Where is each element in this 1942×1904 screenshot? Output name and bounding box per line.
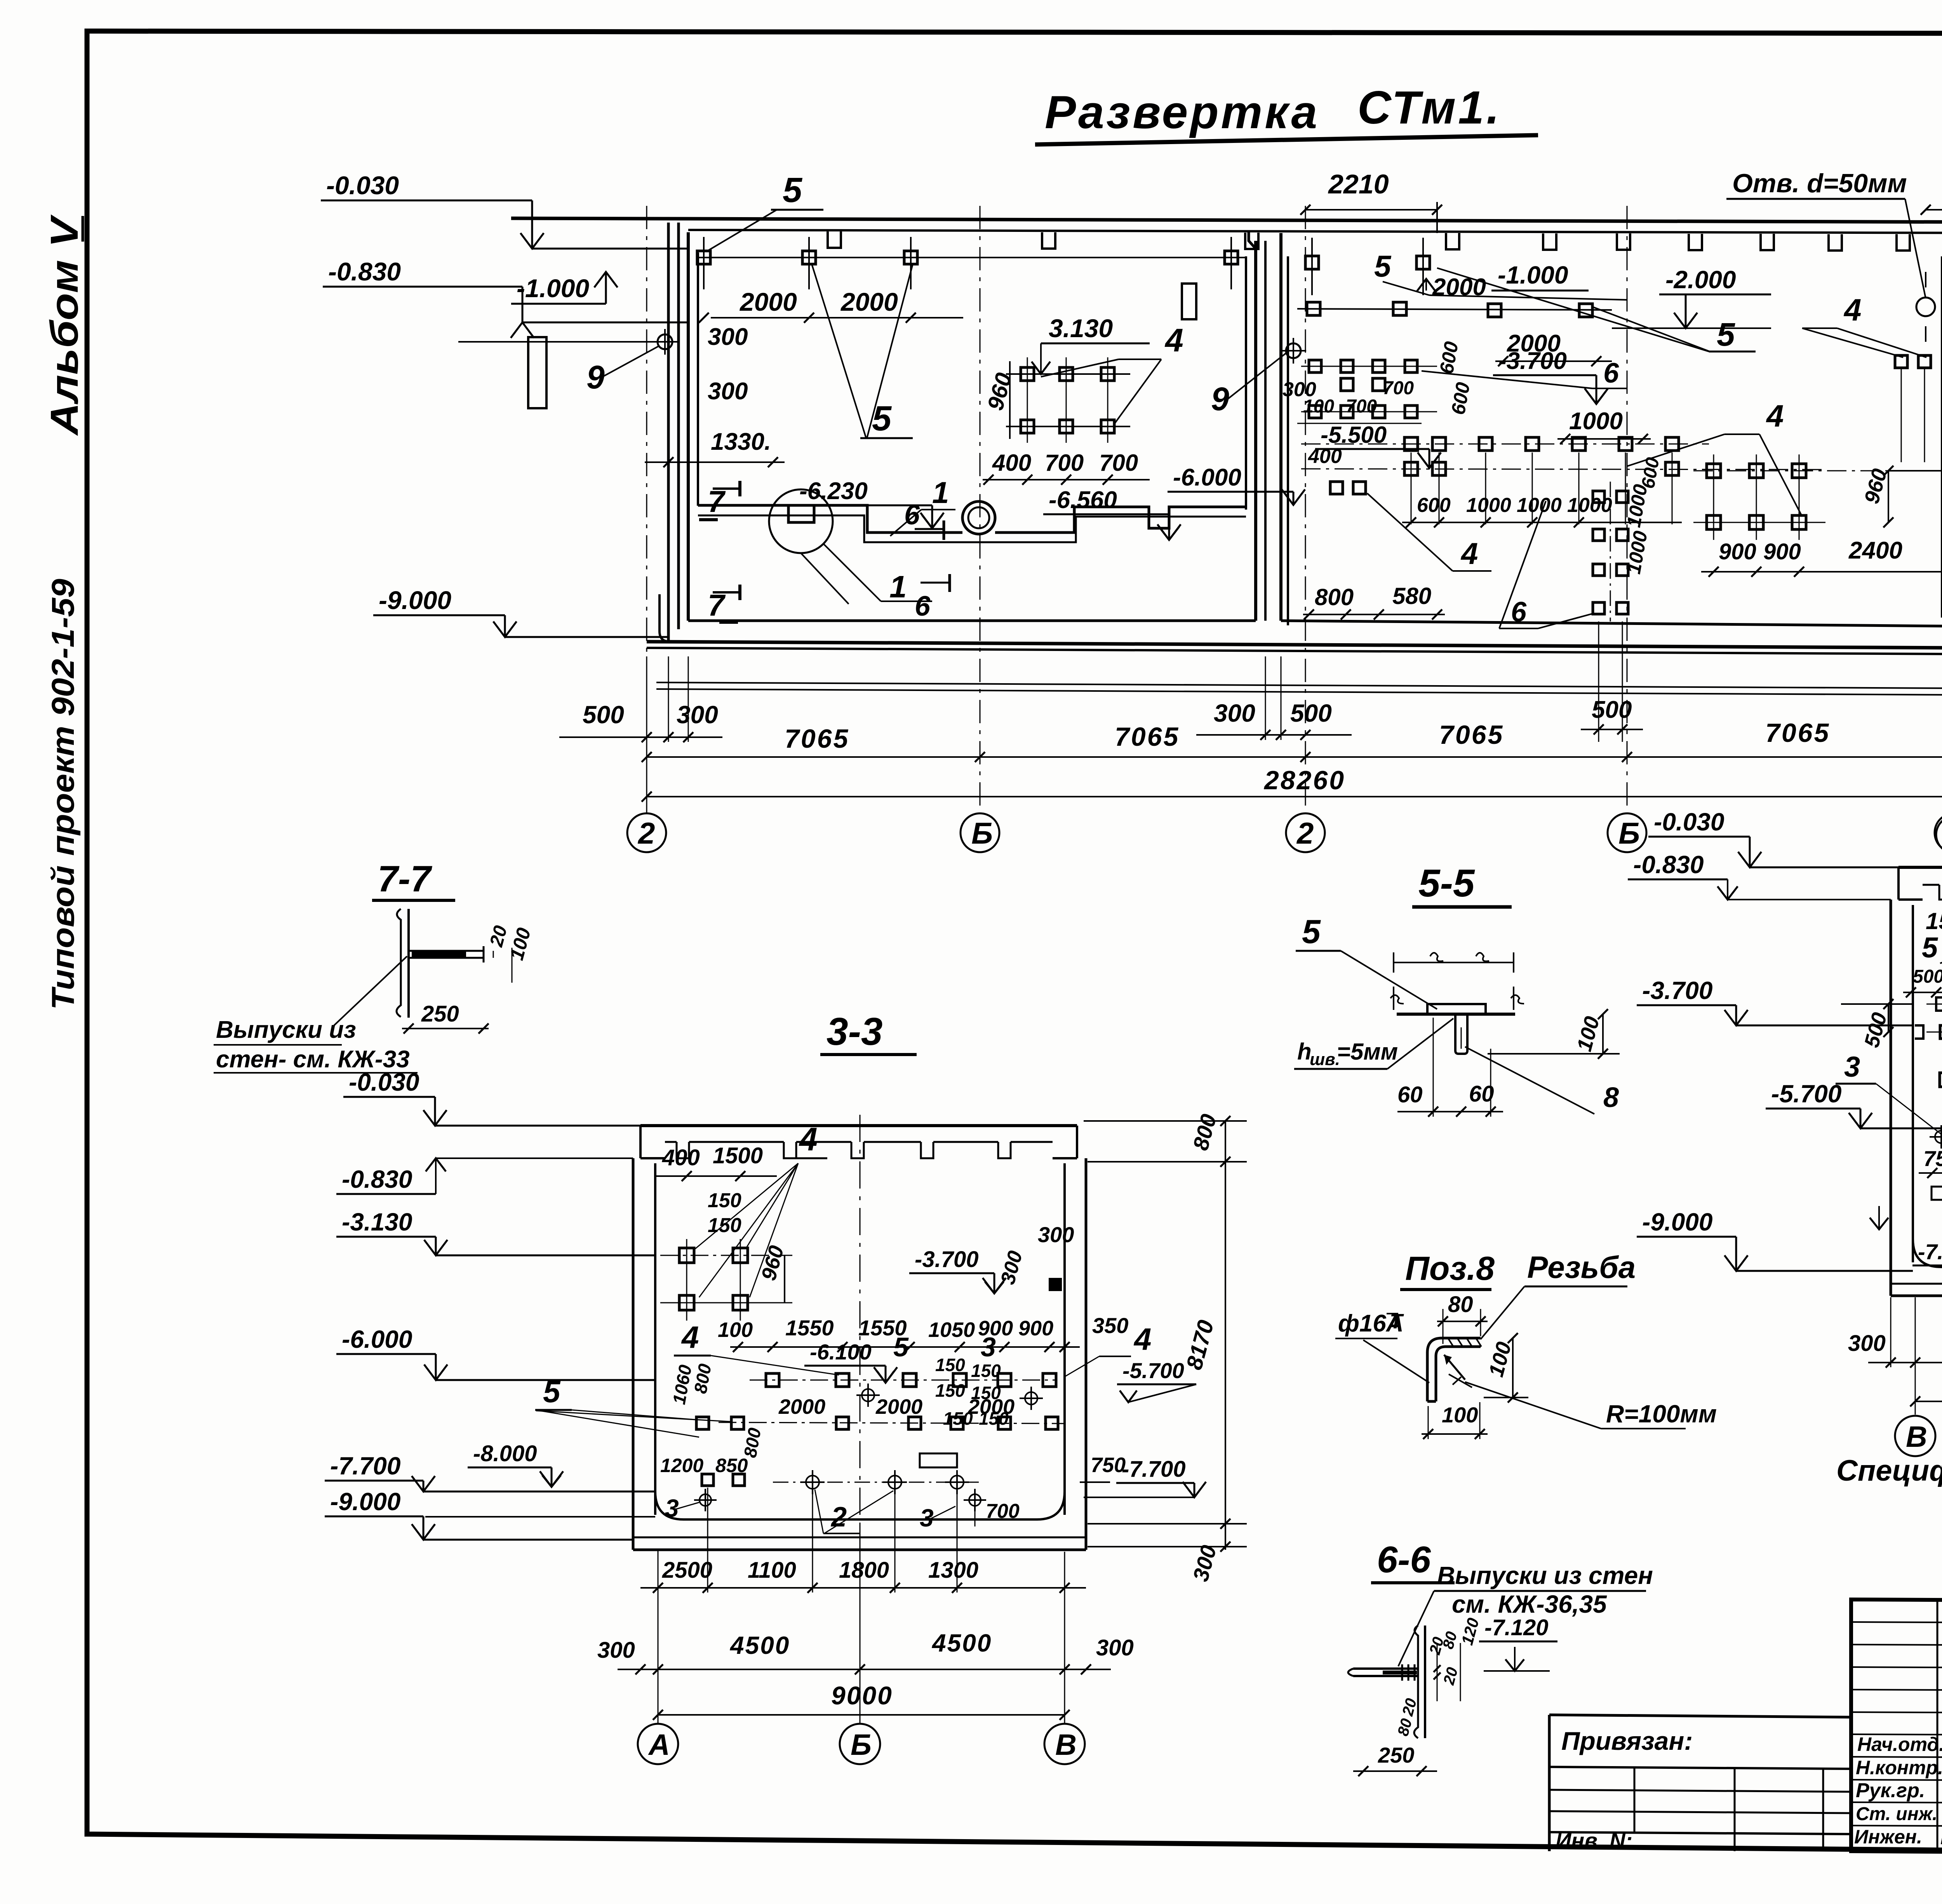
- svg-text:7-7: 7-7: [378, 858, 432, 900]
- section 4-4 axis bubble 2 top: [1936, 656, 1942, 853]
- svg-text:350: 350: [1092, 1313, 1128, 1338]
- section 3-3 right vertical dim 800/8170/300: [1084, 1112, 1247, 1584]
- label 4 far right pair: [1802, 292, 1926, 357]
- section 3-3 title: [820, 1010, 917, 1055]
- svg-text:28260: 28260: [1263, 766, 1345, 795]
- svg-text:-6.100: -6.100: [810, 1340, 872, 1364]
- left cluster small dims: [1282, 340, 1474, 468]
- svg-text:100: 100: [1442, 1403, 1478, 1427]
- svg-text:4: 4: [1843, 292, 1862, 327]
- svg-text:900: 900: [1763, 539, 1801, 564]
- svg-text:1800: 1800: [839, 1558, 889, 1583]
- svg-text:2000: 2000: [739, 287, 797, 316]
- svg-text:Спецификация элементов приве: Спецификация элементов приведена на л. К…: [1836, 1454, 1942, 1487]
- svg-text:Мирошникова: Мирошникова: [1940, 1828, 1942, 1848]
- section 4-4 dim 9000: [1910, 1368, 1942, 1406]
- svg-text:5: 5: [1922, 931, 1939, 964]
- svg-text:-7.120: -7.120: [1484, 1615, 1548, 1640]
- svg-text:5: 5: [1302, 913, 1321, 950]
- level -9.000 left: [373, 586, 668, 637]
- section 4-4 left levels: [1628, 808, 1942, 1271]
- main development view: top edge notches: [828, 231, 1910, 251]
- title block left sub-table: [1851, 1600, 1942, 1853]
- svg-text:750: 750: [1091, 1453, 1126, 1477]
- svg-text:Резьба: Резьба: [1527, 1250, 1636, 1284]
- svg-text:-3.700: -3.700: [1498, 348, 1567, 374]
- detail circle callout 1: [769, 489, 932, 604]
- svg-text:9: 9: [586, 359, 605, 395]
- svg-text:3.130: 3.130: [1049, 314, 1113, 343]
- svg-text:2000: 2000: [968, 1395, 1015, 1418]
- svg-text:1000: 1000: [1569, 408, 1623, 435]
- dims 300 500 below mid wall: [1196, 656, 1352, 740]
- svg-text:6: 6: [1603, 358, 1619, 389]
- svg-text:-0.030: -0.030: [326, 171, 399, 200]
- svg-text:СТм1.: СТм1.: [1357, 82, 1502, 134]
- svg-text:см. КЖ-36,35: см. КЖ-36,35: [1452, 1590, 1607, 1618]
- outlet squares, left panel top row: [697, 237, 1238, 289]
- outlet circle with label 9, left panel: [458, 329, 678, 395]
- svg-text:1000: 1000: [1567, 494, 1612, 517]
- svg-text:400: 400: [662, 1145, 700, 1170]
- svg-text:300: 300: [1096, 1635, 1134, 1660]
- outlet squares, right panel right 3x2 grid: [1693, 454, 1911, 540]
- svg-text:700: 700: [1383, 378, 1414, 399]
- outlet circle with label 9, right panel: [1211, 338, 1306, 417]
- svg-text:300: 300: [1848, 1331, 1886, 1356]
- label 4 leader lower: [1367, 493, 1491, 571]
- svg-text:-5.700: -5.700: [1771, 1080, 1841, 1108]
- svg-text:-9.000: -9.000: [1642, 1208, 1712, 1236]
- svg-text:6-6: 6-6: [1377, 1539, 1431, 1580]
- section 3-3 roof notches: [665, 1142, 1053, 1158]
- svg-text:6: 6: [904, 499, 920, 531]
- section 3-3 small rect detail: [920, 1453, 957, 1467]
- section 3-3 dims 1200 850: [660, 1455, 748, 1476]
- main development view: axis lines: [647, 206, 1942, 813]
- outlet squares, right panel upper: [1297, 238, 1612, 317]
- svg-text:300: 300: [1038, 1222, 1074, 1247]
- svg-text:2: 2: [1296, 816, 1314, 850]
- dims 300/300/1330 left: [645, 324, 785, 467]
- margin label: project number: [45, 579, 81, 1010]
- svg-text:7065: 7065: [785, 724, 849, 754]
- section 4-4 dim 500 rot left: [1841, 999, 1913, 1050]
- main title: [1035, 82, 1538, 144]
- svg-text:Привязан:: Привязан:: [1561, 1726, 1693, 1755]
- section 3-3 level -6.000: [336, 1325, 655, 1380]
- dims 600 1000 1000 1000 under long row: [1402, 494, 1682, 527]
- section 3-3 level -3.130: [336, 1208, 655, 1255]
- svg-text:-0.030: -0.030: [1654, 808, 1724, 836]
- detail poz8 angle bar: [1427, 1338, 1481, 1401]
- svg-text:Б: Б: [851, 1728, 872, 1761]
- svg-text:-3.130: -3.130: [342, 1208, 412, 1236]
- section 5-5 dim 100 + label 8: [1465, 1009, 1620, 1114]
- outlet squares, left panel grid: [1006, 357, 1130, 443]
- svg-text:700: 700: [1099, 450, 1138, 476]
- svg-text:Ст. инж.: Ст. инж.: [1856, 1804, 1937, 1824]
- level -6.000 right of left panel: [1168, 464, 1305, 505]
- section 3-3 level -9.000: [325, 1488, 655, 1540]
- svg-text:100: 100: [718, 1318, 753, 1342]
- svg-text:-0.830: -0.830: [328, 257, 401, 286]
- svg-text:-9.000: -9.000: [330, 1488, 400, 1516]
- svg-text:500: 500: [1592, 696, 1632, 723]
- svg-text:4: 4: [1133, 1322, 1152, 1356]
- svg-text:400: 400: [1308, 445, 1342, 468]
- detail poz8 radius note: [1444, 1355, 1717, 1429]
- svg-text:300: 300: [708, 324, 748, 350]
- section 5-5 title: [1412, 861, 1512, 907]
- section 4-4 squares row 2: [1915, 1025, 1942, 1039]
- svg-text:-6.230: -6.230: [799, 478, 868, 505]
- svg-text:R=100мм: R=100мм: [1606, 1400, 1717, 1428]
- svg-text:3-3: 3-3: [827, 1010, 883, 1053]
- section 3-3 label 5 left with leaders: [535, 1374, 730, 1437]
- svg-text:2500: 2500: [662, 1558, 712, 1583]
- detail poz8 dims: [1335, 1292, 1528, 1439]
- level -6.230: [794, 478, 944, 528]
- section 5-5 label 5: [1296, 913, 1437, 1009]
- svg-text:300: 300: [597, 1638, 635, 1663]
- level -1.000 right panel: [1417, 261, 1589, 291]
- svg-text:Нач.отд.: Нач.отд.: [1857, 1733, 1942, 1755]
- outlet squares, right panel scattered pairs: [1330, 355, 1931, 494]
- label 1 lower left panel: [801, 553, 849, 604]
- svg-text:300: 300: [1214, 699, 1255, 727]
- svg-text:4500: 4500: [931, 1629, 992, 1657]
- label 5 right panel with double leader: [1374, 249, 1756, 353]
- svg-text:-3.700: -3.700: [915, 1247, 978, 1272]
- section 4-4 small rect: [1919, 1187, 1942, 1206]
- svg-text:1: 1: [889, 569, 907, 604]
- svg-text:9000: 9000: [831, 1681, 893, 1710]
- svg-text:2000: 2000: [840, 287, 898, 316]
- svg-text:1000: 1000: [1517, 494, 1562, 517]
- svg-text:2000: 2000: [875, 1395, 922, 1418]
- section 3-3 top right corner dims 300 300 -3.700: [909, 1222, 1074, 1293]
- svg-text:-7.700: -7.700: [1918, 1239, 1942, 1264]
- section 4-4 dim row 750 700 1300 900 900 1100 2500: [1919, 1138, 1942, 1178]
- svg-text:80: 80: [1448, 1292, 1473, 1317]
- svg-text:Типовой проект 902-1-59: Типовой проект 902-1-59: [45, 579, 81, 1010]
- section marks 7-7 left panel: [699, 481, 740, 622]
- svg-text:250: 250: [1378, 1743, 1414, 1767]
- detail poz8 title: [1400, 1250, 1495, 1290]
- svg-text:-5.500: -5.500: [1321, 422, 1387, 448]
- dimension row 28260: [642, 766, 1942, 802]
- svg-text:150: 150: [708, 1189, 741, 1212]
- svg-text:А: А: [648, 1728, 670, 1761]
- section 4-4 label 3 + circle: [1836, 1051, 1942, 1149]
- svg-text:2000: 2000: [1432, 274, 1486, 301]
- section 3-3 upper squares 2x2: [660, 1239, 792, 1321]
- section 4-4 squares row 1: [1926, 997, 1942, 1011]
- dim 960 rot right grid: [1860, 466, 1893, 527]
- svg-text:5: 5: [893, 1332, 909, 1362]
- outlet squares, right panel center column pairs: [1593, 482, 1628, 621]
- svg-text:4: 4: [681, 1320, 699, 1354]
- svg-text:-6.000: -6.000: [1173, 464, 1241, 491]
- svg-text:7065: 7065: [1439, 720, 1504, 750]
- dims 400 700 700 left panel: [983, 450, 1150, 485]
- section 3-3 rotated dims 1060 800 800: [669, 1362, 765, 1459]
- svg-text:В: В: [1906, 1420, 1927, 1453]
- svg-text:60: 60: [1397, 1082, 1423, 1107]
- svg-text:7065: 7065: [1115, 722, 1180, 752]
- svg-text:1100: 1100: [748, 1558, 796, 1583]
- svg-text:4: 4: [1460, 536, 1478, 571]
- svg-text:Инв. N:: Инв. N:: [1556, 1828, 1632, 1853]
- section 7-7 outlet bar: [409, 946, 484, 962]
- svg-text:580: 580: [1392, 583, 1431, 609]
- section 3-3 axis line verticals inside: [860, 1115, 861, 1523]
- svg-text:500: 500: [583, 701, 624, 729]
- svg-text:В: В: [1055, 1728, 1077, 1761]
- main development view: top slab lines: [511, 218, 1942, 233]
- svg-text:9: 9: [1211, 381, 1229, 417]
- svg-text:Отв. d=50мм: Отв. d=50мм: [1732, 169, 1907, 198]
- svg-text:1500: 1500: [1926, 908, 1942, 934]
- svg-text:5: 5: [543, 1374, 561, 1409]
- svg-text:5: 5: [1374, 249, 1392, 283]
- specification note: [1836, 1454, 1942, 1487]
- level -0.030 left: [321, 171, 688, 249]
- label 6 right panel: [1422, 358, 1627, 389]
- level -1.000 left: [511, 272, 618, 304]
- main development view: left panel floor with channel: [698, 505, 1246, 542]
- svg-text:Н.контр.: Н.контр.: [1856, 1757, 1942, 1779]
- svg-text:2000: 2000: [778, 1395, 825, 1418]
- axis bubbles row: [627, 813, 1942, 852]
- svg-text:1050: 1050: [928, 1318, 975, 1342]
- section 3-3 mid dim row 100 1550 1550 1050 900 900 350: [718, 1313, 1128, 1352]
- svg-text:500: 500: [1290, 699, 1332, 727]
- svg-text:600: 600: [1417, 494, 1451, 517]
- svg-text:1: 1: [932, 475, 949, 510]
- section 4-4 roof slab: [1898, 867, 1942, 900]
- svg-text:=5мм: =5мм: [1337, 1039, 1398, 1065]
- svg-text:5: 5: [1717, 316, 1735, 353]
- main development view: left end wall: [660, 223, 687, 642]
- section 4-4 dim row 500 1000x6: [1903, 966, 1942, 997]
- svg-text:-7.700: -7.700: [1122, 1457, 1185, 1482]
- hole note Otv d=50mm: [1726, 169, 1935, 342]
- svg-text:7065: 7065: [1765, 718, 1830, 748]
- section 3-3 dims 400 1500 + label 4: [656, 1121, 827, 1297]
- section 3-3 dim row 9000: [653, 1681, 1070, 1720]
- section 3-3 label 4 left mid: [674, 1320, 839, 1375]
- dim 2000/2000 left panel: [699, 287, 963, 323]
- outlet squares, right panel long rows: [1301, 437, 1825, 524]
- svg-text:750: 750: [1923, 1146, 1942, 1171]
- svg-text:-2.000: -2.000: [1665, 266, 1736, 294]
- section 3-3 level -7.700: [325, 1452, 655, 1492]
- section 4-4 dims 1500 2500: [1922, 897, 1942, 964]
- title block outer: [1851, 1599, 1942, 1857]
- svg-text:1200: 1200: [660, 1455, 703, 1476]
- section 3-3 bottom dim row 2500 1100 1800 1300: [640, 1488, 1086, 1593]
- svg-text:2210: 2210: [1328, 169, 1389, 199]
- section 4-4 -7.700 left + arrow: [1870, 1206, 1942, 1265]
- svg-text:6: 6: [915, 591, 931, 622]
- detail poz8 rezba note: [1481, 1250, 1636, 1339]
- svg-text:2: 2: [637, 816, 655, 850]
- section 4-4 bottom dim row 300 4500 4500 300: [1848, 1297, 1942, 1368]
- svg-text:300: 300: [677, 701, 718, 729]
- svg-text:1300: 1300: [928, 1558, 978, 1583]
- privyazan table: [1549, 1715, 1851, 1853]
- svg-text:4: 4: [1766, 399, 1784, 433]
- dims 900 900 2400 right grid: [1701, 537, 1942, 577]
- section 3-3 walls: [633, 1158, 1086, 1550]
- label 1 + 6 section cut marks mid: [890, 475, 955, 622]
- drain pipe circle: [962, 501, 995, 534]
- section 5-5 weld note: [1294, 1018, 1453, 1069]
- dim 2000 upper right panel: [1420, 274, 1534, 307]
- section 5-5 break marks above: [1390, 952, 1524, 1010]
- section 3-3 bottom squares + circles: [694, 1470, 986, 1511]
- dim 500/500 near right wall: [1888, 430, 1942, 476]
- svg-text:150: 150: [971, 1361, 1001, 1381]
- dim 2210 top: [1300, 169, 1442, 233]
- dims 500 300 below left end: [559, 656, 722, 813]
- svg-text:-3.700: -3.700: [1642, 976, 1712, 1004]
- svg-text:100: 100: [1303, 396, 1334, 417]
- section 7-7 wall: [397, 906, 409, 1018]
- svg-text:Б: Б: [971, 816, 993, 850]
- label 5 with leaders, left panel: [706, 171, 823, 252]
- svg-text:500: 500: [1913, 966, 1942, 987]
- svg-text:-0.030: -0.030: [349, 1068, 419, 1096]
- svg-text:Развертка: Развертка: [1045, 86, 1319, 138]
- section 4-4 top dim lines from main: [1627, 757, 1942, 781]
- svg-text:3: 3: [981, 1332, 996, 1362]
- svg-text:900: 900: [1018, 1317, 1053, 1340]
- svg-text:150: 150: [708, 1214, 741, 1237]
- svg-text:3: 3: [1844, 1051, 1860, 1083]
- section 7-7 dims: [402, 923, 535, 1034]
- svg-text:1330.: 1330.: [711, 428, 771, 455]
- section 5-5 plate and stem: [1397, 1004, 1515, 1054]
- section 3-3 dim row 300 4500 4500 300: [597, 1629, 1134, 1674]
- section 3-3 roof slab: [640, 1126, 1077, 1158]
- section 3-3 bottom labels 3 2 3 700 750 -7.700: [665, 1453, 1126, 1533]
- label 5 mid leaders: [812, 264, 913, 438]
- section 3-3 dims 2000 x3: [778, 1395, 1015, 1418]
- svg-text:шв.: шв.: [1310, 1050, 1340, 1069]
- svg-text:-1.000: -1.000: [1498, 261, 1568, 289]
- svg-text:1500: 1500: [713, 1143, 763, 1168]
- svg-text:6: 6: [1511, 597, 1527, 628]
- section 3-3 mid squares row (-6.000 line): [750, 1373, 1056, 1387]
- dim 550 top right: [1921, 163, 1942, 215]
- dim 500 below right panel: [1581, 621, 1643, 742]
- section 6-6 title: [1371, 1539, 1455, 1583]
- section 6-6 wall: [1414, 1626, 1425, 1738]
- dim 1000 + label 4 right panel: [1557, 399, 1802, 517]
- svg-text:1000: 1000: [1466, 494, 1511, 517]
- svg-text:Б: Б: [1618, 816, 1640, 850]
- rotated dims 1000 column: [1623, 456, 1664, 576]
- svg-text:400: 400: [992, 450, 1031, 476]
- level -5.500: [1315, 422, 1441, 468]
- svg-text:-0.830: -0.830: [342, 1165, 412, 1193]
- svg-text:-6.560: -6.560: [1049, 487, 1117, 513]
- section 3-3 axis bubbles: [638, 1523, 1085, 1764]
- section 6-6 dims: [1353, 1616, 1483, 1776]
- svg-text:-1.000: -1.000: [517, 274, 589, 303]
- svg-text:300: 300: [708, 378, 748, 405]
- svg-text:150: 150: [935, 1380, 965, 1401]
- main development view: bottom band: [647, 621, 1942, 695]
- level -6.560: [1043, 487, 1181, 540]
- section 6-6 outlet bars: [1348, 1664, 1418, 1681]
- level -0.830 left: [323, 257, 688, 338]
- section 5-5 dims 60 60: [1397, 1018, 1503, 1117]
- level -3.700 right panel: [1493, 348, 1608, 404]
- section 4-4 squares row 3 pair: [1930, 1073, 1942, 1087]
- section 6-6 note: [1398, 1561, 1653, 1671]
- dim 960 rot left panel: [983, 361, 1017, 439]
- main development view: left panel walls: [688, 232, 1256, 621]
- svg-text:900: 900: [1719, 539, 1756, 564]
- svg-text:700: 700: [1045, 450, 1084, 476]
- dim 2000 mid right panel: [1495, 330, 1612, 366]
- svg-text:Выпуски из стен: Выпуски из стен: [1437, 1561, 1653, 1589]
- label 6 leader lower: [1499, 501, 1592, 628]
- dim 3.130 + leader 4 left panel: [1032, 314, 1183, 423]
- svg-text:4500: 4500: [729, 1631, 790, 1659]
- svg-text:1550: 1550: [785, 1316, 834, 1340]
- svg-text:5: 5: [783, 171, 803, 210]
- svg-text:Выпуски из: Выпуски из: [216, 1016, 356, 1043]
- mid double wall between panels: [1265, 233, 1288, 625]
- svg-text:Инжен.: Инжен.: [1854, 1826, 1922, 1848]
- section 3-3 right levels -5.700 -7.700 + label 4: [1064, 1322, 1206, 1497]
- svg-text:2400: 2400: [1848, 537, 1902, 564]
- svg-text:8: 8: [1603, 1082, 1619, 1113]
- svg-text:150: 150: [935, 1355, 965, 1375]
- section 3-3 level -0.030: [343, 1068, 640, 1126]
- section 3-3 level -0.830: [336, 1158, 633, 1194]
- dimension row 7065 x4: [642, 718, 1942, 762]
- svg-text:4: 4: [799, 1121, 818, 1157]
- section 4-4 axis bubbles: [1895, 1273, 1942, 1456]
- svg-text:-8.000: -8.000: [473, 1441, 537, 1466]
- svg-text:Альбом V: Альбом V: [43, 214, 86, 437]
- svg-text:-6.000: -6.000: [342, 1325, 412, 1353]
- svg-text:4: 4: [1164, 322, 1183, 359]
- margin label: album: [43, 214, 86, 437]
- section 3-3 lower squares row: [696, 1417, 1064, 1429]
- svg-text:Рук.гр.: Рук.гр.: [1856, 1779, 1925, 1802]
- dims 800 580 lower left of right panel: [1303, 583, 1445, 620]
- main development view: inner line with outlets, left panel: [698, 257, 1246, 258]
- outlet squares, right panel left cluster: [1301, 360, 1437, 418]
- svg-text:-0.830: -0.830: [1633, 851, 1704, 879]
- section 3-3 level -8.000: [468, 1441, 563, 1487]
- title block signature labels: [1854, 1732, 1942, 1848]
- svg-text:-5.700: -5.700: [1122, 1358, 1184, 1383]
- svg-text:5-5: 5-5: [1418, 861, 1475, 905]
- section 3-3 cluster 150s: [935, 1355, 1009, 1429]
- section 4-4 walls: [1891, 900, 1942, 1296]
- svg-text:-9.000: -9.000: [379, 586, 451, 614]
- svg-text:Поз.8: Поз.8: [1405, 1250, 1495, 1287]
- svg-text:3: 3: [665, 1494, 679, 1522]
